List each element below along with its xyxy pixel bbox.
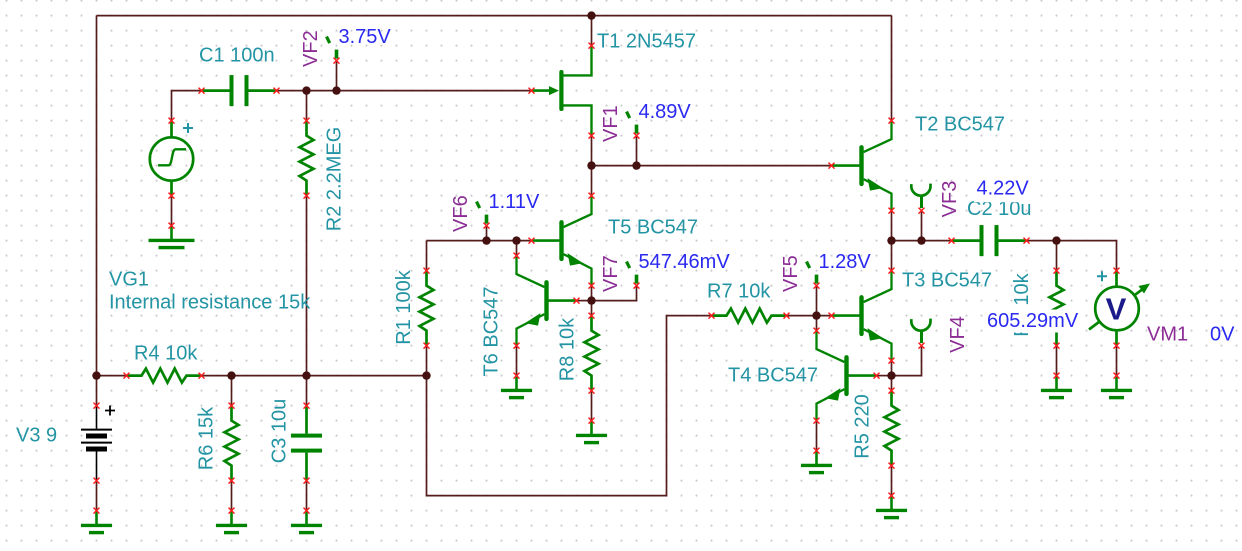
junction node at 636.5,165.6 xyxy=(632,161,640,169)
junction node at 816.5,315.6 xyxy=(812,311,820,319)
wire right rail to T2 collector xyxy=(891,16,893,121)
wire node to R1 top xyxy=(426,241,428,271)
probe VF6 xyxy=(477,202,490,229)
transistor T3 BC547 xyxy=(829,268,895,364)
wire T3 collector up xyxy=(891,241,893,271)
label R6 15k xyxy=(196,406,218,470)
svg-text:VF1: VF1 xyxy=(600,105,622,142)
wire node to C2 xyxy=(892,240,952,242)
wire T5 base row xyxy=(427,240,532,242)
probe VF3 xyxy=(911,184,930,214)
svg-text:V3 9: V3 9 xyxy=(16,425,57,447)
wire node to T4 collector xyxy=(816,316,818,331)
wire node to R3 top xyxy=(1056,241,1058,271)
wire R7 to T3 base xyxy=(787,315,832,317)
wire VF2 probe drop xyxy=(336,61,338,91)
ground under R5 xyxy=(876,493,907,518)
svg-text:V: V xyxy=(1106,292,1127,327)
probe VF2 xyxy=(327,37,340,64)
wire VF5 probe drop xyxy=(816,286,818,316)
svg-text:1.11V: 1.11V xyxy=(489,191,540,213)
svg-text:VF2: VF2 xyxy=(300,30,322,67)
svg-text:T1 2N5457: T1 2N5457 xyxy=(597,31,696,53)
resistor R2 xyxy=(300,118,314,199)
wire T4 base link xyxy=(877,375,892,377)
capacitor C1 xyxy=(199,75,280,106)
svg-text:Internal resistance 15k: Internal resistance 15k xyxy=(109,292,311,314)
svg-text:VM1: VM1 xyxy=(1147,324,1188,346)
wire VG1 top to C1 xyxy=(172,91,202,121)
junction node at 891.5,375.6 xyxy=(887,371,895,379)
value 4.22V xyxy=(977,178,1030,200)
wire VG1 bottom to ground xyxy=(171,196,173,226)
wire T5 emitter down xyxy=(591,286,593,301)
label R3 10k xyxy=(1011,272,1033,336)
svg-text:605.29mV: 605.29mV xyxy=(987,310,1079,332)
value 605.29mV backing xyxy=(985,310,1080,333)
value 3.75V xyxy=(339,26,392,48)
wire node to V3 top xyxy=(96,376,98,406)
svg-text:T2 BC547: T2 BC547 xyxy=(915,114,1005,136)
wire node to T6 base xyxy=(577,300,592,302)
wire C1 to VF2 node and T1 gate xyxy=(277,90,532,92)
ground under VG1 xyxy=(149,223,195,248)
wire T1 source down xyxy=(591,136,593,166)
label VF1 xyxy=(600,105,622,142)
ground under T4 xyxy=(801,448,832,473)
junction node at 426.5,375.6 xyxy=(422,371,430,379)
transistor T6 BC547 xyxy=(514,253,580,349)
wire R2 bottom to bottom node xyxy=(306,196,308,376)
svg-text:R2 2.2MEG: R2 2.2MEG xyxy=(324,127,346,231)
wire T6 collector up xyxy=(516,241,518,256)
voltage generator VG1 xyxy=(150,118,193,199)
transistor T1 2N5457 JFET xyxy=(529,43,595,139)
resistor R8 xyxy=(585,313,599,394)
svg-text:VG1: VG1 xyxy=(109,269,149,291)
svg-text:T4 BC547: T4 BC547 xyxy=(728,365,818,387)
transistor T2 BC547 xyxy=(829,118,895,214)
resistor R7 xyxy=(709,309,790,323)
wire VF7 probe drop xyxy=(592,286,637,301)
label V3 9 xyxy=(16,425,57,447)
junction node at 591.5,165.6 xyxy=(587,161,595,169)
junction node at 1056.5,240.6 xyxy=(1052,236,1060,244)
wire C2 to VM1 xyxy=(1027,241,1117,271)
svg-text:3.75V: 3.75V xyxy=(339,26,392,48)
junction node at 231.5,375.6 xyxy=(227,371,235,379)
wire node to R8 top xyxy=(591,301,593,316)
value 1.28V xyxy=(819,251,872,273)
label R8 10k xyxy=(557,317,579,381)
wire T5 collector up xyxy=(591,166,593,196)
resistor R3 xyxy=(1050,268,1064,349)
wire feedback loop to R7 xyxy=(427,316,712,496)
label R7 10k xyxy=(707,281,771,303)
label T6 BC547 xyxy=(481,286,503,376)
wire top rail xyxy=(97,15,892,17)
svg-text:1.28V: 1.28V xyxy=(819,251,872,273)
ground under C3 xyxy=(291,508,322,533)
wire T1 drain to top rail xyxy=(591,16,593,46)
ground under R8 xyxy=(576,418,607,443)
junction node at 591.5,15.6 xyxy=(587,11,595,19)
label T3 BC547 xyxy=(902,270,992,292)
value 4.89V xyxy=(639,101,692,123)
transistor T4 BC547 xyxy=(814,328,880,424)
value 547.46mV xyxy=(639,251,731,273)
wire VF1 node to T2 base xyxy=(592,165,832,167)
wire C3 bottom to ground xyxy=(306,481,308,511)
svg-text:4.22V: 4.22V xyxy=(977,178,1030,200)
junction node at 96.5,375.6 xyxy=(92,371,100,379)
svg-text:4.89V: 4.89V xyxy=(639,101,692,123)
probe VF4 xyxy=(911,319,930,349)
wire left rail to R4 xyxy=(97,375,127,377)
battery V3 xyxy=(81,403,115,484)
label VF4 xyxy=(947,316,969,353)
label VM1 xyxy=(1147,324,1188,346)
svg-text:C1 100n: C1 100n xyxy=(199,45,275,67)
label R4 10k xyxy=(134,343,198,365)
value 4.22V backing xyxy=(974,178,1034,202)
resistor R5 xyxy=(885,388,899,469)
wire R4 to R1 node xyxy=(202,375,427,377)
ground under T6 xyxy=(501,373,532,398)
wire VF1 probe drop xyxy=(636,136,638,166)
wire node to R2 top xyxy=(306,91,308,121)
voltmeter VM1 xyxy=(1089,268,1150,349)
svg-text:VF4: VF4 xyxy=(947,316,969,353)
wire T3 emitter down xyxy=(891,361,893,376)
svg-text:T6 BC547: T6 BC547 xyxy=(481,286,503,376)
wire node to R6 top xyxy=(231,376,233,406)
ground under R3 xyxy=(1041,373,1072,398)
wire V3 bottom to ground xyxy=(96,481,98,511)
svg-text:547.46mV: 547.46mV xyxy=(639,251,731,273)
junction node at 306.5,90.6 xyxy=(302,86,310,94)
label R5 220 xyxy=(852,394,874,459)
probe VF5 xyxy=(807,262,820,289)
wire T4 emitter to ground xyxy=(816,421,818,451)
svg-text:0V: 0V xyxy=(1210,324,1235,346)
label Internal resistance 15k xyxy=(109,292,311,314)
junction node at 306.5,375.6 xyxy=(302,371,310,379)
ground under V3 xyxy=(81,508,112,533)
wire R6 bottom to ground xyxy=(231,481,233,511)
wire R1 bottom to node xyxy=(426,346,428,376)
svg-text:R4 10k: R4 10k xyxy=(134,343,198,365)
svg-text:VF5: VF5 xyxy=(780,255,802,292)
resistor R1 xyxy=(420,268,434,349)
svg-text:R6 15k: R6 15k xyxy=(196,406,218,470)
label VG1 xyxy=(109,269,149,291)
svg-text:R5 220: R5 220 xyxy=(852,394,874,459)
svg-text:C3 10u: C3 10u xyxy=(269,399,291,464)
svg-text:VF3: VF3 xyxy=(939,181,961,218)
wire node to C3 top xyxy=(306,376,308,406)
ground under R6 xyxy=(216,508,247,533)
svg-text:R8 10k: R8 10k xyxy=(557,317,579,381)
wire VF3 probe drop xyxy=(921,211,923,241)
svg-text:R7 10k: R7 10k xyxy=(707,281,771,303)
wire R8 bottom to ground xyxy=(591,391,593,421)
label T1 2N5457 xyxy=(597,31,696,53)
svg-text:R1 100k: R1 100k xyxy=(393,269,415,344)
wire R5 bottom to ground xyxy=(891,466,893,496)
value 0V xyxy=(1210,324,1235,346)
svg-text:T5 BC547: T5 BC547 xyxy=(608,217,698,239)
probe VF7 xyxy=(627,262,640,289)
capacitor C3 xyxy=(291,403,322,484)
label T2 BC547 xyxy=(915,114,1005,136)
wire VF4 probe drop xyxy=(892,346,922,376)
resistor R4 xyxy=(124,369,205,383)
resistor R6 xyxy=(225,403,239,484)
wire R3 bottom to ground xyxy=(1056,346,1058,376)
label T4 BC547 xyxy=(728,365,818,387)
label T5 BC547 xyxy=(608,217,698,239)
label R1 100k xyxy=(393,269,415,344)
label C1 100n xyxy=(199,45,275,67)
junction node at 891.5,240.6 xyxy=(887,236,895,244)
ground under VM1 xyxy=(1101,373,1132,398)
transistor T5 BC547 xyxy=(529,193,595,289)
label VF5 xyxy=(780,255,802,292)
wire T6 emitter to ground xyxy=(516,346,518,376)
probe VF1 xyxy=(627,112,640,139)
label R2 2.2MEG xyxy=(324,127,346,231)
label VF6 xyxy=(450,195,472,232)
label VF3 xyxy=(939,181,961,218)
junction node at 921.5,240.6 xyxy=(917,236,925,244)
label C2 10u xyxy=(967,198,1032,220)
wire node to R5 top xyxy=(891,376,893,391)
svg-text:T3 BC547: T3 BC547 xyxy=(902,270,992,292)
svg-text:VF7: VF7 xyxy=(600,255,622,292)
wire VM1 bottom to ground xyxy=(1116,346,1118,376)
label VF7 xyxy=(600,255,622,292)
junction node at 336.5,90.6 xyxy=(332,86,340,94)
value 605.29mV xyxy=(987,310,1079,332)
wire T2 emitter down xyxy=(891,211,893,241)
wire left rail xyxy=(96,16,98,376)
wire VF6 probe drop xyxy=(486,226,488,241)
svg-text:VF6: VF6 xyxy=(450,195,472,232)
junction node at 591.5,300.6 xyxy=(587,296,595,304)
label VF2 xyxy=(300,30,322,67)
junction node at 516.5,240.6 xyxy=(512,236,520,244)
capacitor C2 xyxy=(949,225,1030,256)
label C3 10u xyxy=(269,399,291,464)
junction node at 486.5,240.6 xyxy=(482,236,490,244)
value 1.11V xyxy=(489,191,540,213)
